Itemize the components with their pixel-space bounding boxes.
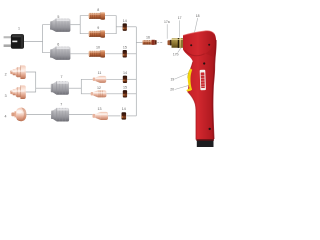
torch head brass body 17 xyxy=(172,38,184,48)
wire cap5 to bracket B xyxy=(70,24,80,26)
wire shield4 to cap 7b xyxy=(26,114,51,116)
svg-text:12: 12 xyxy=(97,86,101,90)
leader 19 xyxy=(175,73,190,79)
torch head copper tip xyxy=(168,40,172,46)
nozzle 11 xyxy=(93,76,107,83)
svg-text:5: 5 xyxy=(57,15,59,19)
svg-text:11: 11 xyxy=(98,71,102,75)
bracket C (right of electrodes 8/9) xyxy=(105,16,116,34)
retaining cap 7b xyxy=(51,108,69,122)
svg-text:17b: 17b xyxy=(173,52,179,56)
diffuser 15b xyxy=(123,90,127,97)
wire electrode10 to diffuser 15a xyxy=(105,53,123,55)
trigger 19/20 (yellow) xyxy=(187,69,193,92)
wire cap7a to bracket F xyxy=(69,87,81,89)
wire diffuser15b to bus xyxy=(127,93,136,95)
svg-text:17: 17 xyxy=(178,16,182,20)
leader 17b xyxy=(178,48,182,53)
bracket F (nozzles 11/12) xyxy=(81,79,92,94)
svg-text:8: 8 xyxy=(97,8,99,12)
nozzle 12 xyxy=(91,90,107,97)
adapter 16 xyxy=(143,40,157,45)
leader 17a xyxy=(166,24,168,39)
wire nozzle13 to diffuser 14c xyxy=(108,115,120,117)
svg-text:3: 3 xyxy=(5,94,7,98)
svg-text:16: 16 xyxy=(146,36,150,40)
bracket E (shields 2/3) xyxy=(26,72,36,92)
svg-text:2: 2 xyxy=(5,73,7,77)
diffuser 14a xyxy=(123,23,127,31)
svg-text:19: 19 xyxy=(171,78,175,82)
svg-text:9: 9 xyxy=(97,26,99,30)
wire part16 to torch head (dashed) xyxy=(157,42,163,44)
handle label sticker xyxy=(200,70,206,91)
retaining cap 6 xyxy=(50,47,70,60)
nozzle 13 xyxy=(93,112,109,120)
svg-text:17a: 17a xyxy=(164,20,170,24)
svg-text:14: 14 xyxy=(123,71,127,75)
svg-text:18: 18 xyxy=(196,14,200,18)
shield cup 2 xyxy=(10,65,25,79)
electrode 9 xyxy=(89,30,105,38)
svg-text:10: 10 xyxy=(96,46,100,50)
leader 20 xyxy=(175,85,190,89)
wire diffuser14b to bus xyxy=(127,78,136,80)
leader 18 xyxy=(194,18,197,34)
torch body 18 (red) xyxy=(183,31,216,140)
bus vertical line xyxy=(135,27,137,116)
wire nozzle12 to diffuser 15b xyxy=(106,93,122,95)
wire bracket E to cap 7a xyxy=(36,87,51,89)
svg-text:14: 14 xyxy=(123,19,127,23)
diffuser 14b xyxy=(123,76,127,83)
shield cup 3 xyxy=(10,85,25,99)
wire diffuser 15a to bus xyxy=(127,53,136,55)
electrode 8 xyxy=(89,12,105,20)
wire cap7b to nozzle 13 xyxy=(69,114,93,116)
svg-text:6: 6 xyxy=(57,42,59,46)
wire cap6 to electrode 10 xyxy=(70,53,89,55)
svg-text:7: 7 xyxy=(60,103,62,107)
bracket A (caps 5/6) xyxy=(43,25,50,53)
leader 17 xyxy=(178,20,180,37)
retaining cap 7a xyxy=(51,81,69,95)
svg-text:14: 14 xyxy=(122,107,126,111)
wire from part 1 to bracket A xyxy=(24,40,43,42)
cable boot (black) xyxy=(196,139,213,147)
wire diffuser14c to bus xyxy=(127,115,137,117)
bracket B (electrodes 8/9) xyxy=(80,16,89,34)
svg-text:7: 7 xyxy=(61,75,63,79)
wire diffuser 14a to bus xyxy=(127,26,136,28)
svg-text:20: 20 xyxy=(170,88,174,92)
retaining cap 5 xyxy=(50,19,70,32)
diffuser 15a xyxy=(123,50,127,58)
screw dots xyxy=(190,44,192,46)
wire bus to part 16 xyxy=(136,42,142,44)
svg-text:13: 13 xyxy=(98,107,102,111)
part 1 torch connector plug xyxy=(4,34,24,49)
electrode 10 xyxy=(89,50,105,58)
svg-text:4: 4 xyxy=(5,115,7,119)
dome shield 4 xyxy=(11,108,26,122)
svg-text:15: 15 xyxy=(123,46,127,50)
wire nozzle11 to diffuser 14b xyxy=(106,78,123,80)
diffuser 14c xyxy=(122,112,127,119)
wire bracket C to diffuser 14a xyxy=(116,26,122,28)
svg-text:1: 1 xyxy=(18,26,20,30)
svg-text:15: 15 xyxy=(123,86,127,90)
